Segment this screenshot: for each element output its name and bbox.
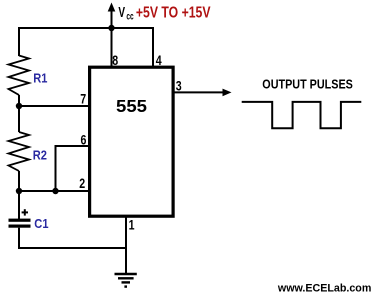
resistor R1 — [9, 56, 30, 96]
Vcc power arrow — [108, 3, 116, 29]
junction pin6 to pin2 — [52, 188, 58, 194]
junction Vcc node — [108, 25, 114, 31]
wire left rail top — [18, 27, 20, 56]
svg-text:1: 1 — [129, 217, 135, 233]
svg-text:6: 6 — [81, 132, 87, 148]
resistor R2 — [9, 132, 30, 171]
capacitor C1 — [9, 219, 31, 228]
svg-text:4: 4 — [156, 53, 162, 69]
wire between R1 and R2 — [18, 95, 20, 132]
svg-text:R1: R1 — [33, 70, 47, 85]
junction node pin2 tap — [16, 188, 22, 194]
svg-text:V: V — [118, 4, 125, 20]
svg-text:R2: R2 — [33, 147, 47, 162]
wire pin 6 horizontal — [55, 145, 90, 147]
label C1 polarity + — [22, 209, 28, 215]
wire pin 8 drop — [111, 28, 113, 66]
label Vcc — [118, 4, 133, 22]
wire pin 4 drop — [152, 27, 154, 66]
wire pin 2 — [19, 190, 89, 192]
wire pin 1 drop — [125, 216, 127, 274]
svg-text:2: 2 — [79, 176, 85, 192]
svg-text:C1: C1 — [34, 216, 48, 231]
waveform output pulses — [242, 102, 362, 128]
IC 555 timer — [90, 67, 174, 216]
wire bottom rail — [18, 247, 126, 249]
wire pin 3 output with arrowhead — [174, 89, 232, 97]
svg-text:3: 3 — [176, 78, 182, 94]
ground — [115, 274, 137, 288]
wire pin 7 — [19, 105, 89, 107]
label +5V TO +15V — [136, 3, 211, 21]
svg-text:8: 8 — [112, 53, 118, 69]
wire below C1 — [18, 228, 20, 249]
wire between R2 and C1 — [18, 171, 20, 219]
svg-text:cc: cc — [126, 10, 133, 22]
wire pin 6 vertical — [55, 146, 57, 191]
svg-text:+5V TO +15V: +5V TO +15V — [136, 3, 211, 21]
wire top supply rail — [19, 27, 153, 29]
svg-text:OUTPUT PULSES: OUTPUT PULSES — [262, 77, 353, 92]
junction node pin7 tap — [16, 103, 22, 109]
svg-text:555: 555 — [116, 95, 147, 116]
svg-text:7: 7 — [80, 91, 86, 107]
svg-text:www.ECELab.com: www.ECELab.com — [277, 282, 371, 294]
